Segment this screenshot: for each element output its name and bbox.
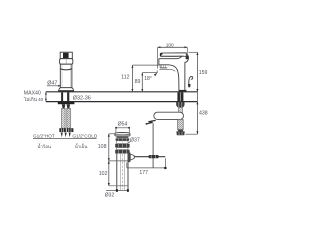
leader for Ø37: [128, 142, 130, 143]
svg-text:89: 89: [135, 79, 141, 85]
deck top line: [46, 91, 198, 93]
dimension 112 line: [131, 65, 133, 92]
svg-text:18°: 18°: [144, 76, 152, 82]
svg-text:MAX40: MAX40: [24, 90, 41, 96]
faucet S1 white silhouette: [159, 53, 189, 92]
hoses below capsule (side view): [178, 119, 184, 129]
hose H2 end nut: [67, 128, 74, 132]
drain tailpipe: [116, 154, 118, 190]
faucet S1 lever handle: [160, 53, 186, 57]
svg-text:438: 438: [199, 110, 208, 116]
bottom dim tick to 438: [185, 133, 197, 135]
hose H1 end nut: [59, 128, 66, 132]
hose H2 (cold) braided: [67, 108, 71, 128]
dimension 159/438 line: [196, 52, 198, 134]
faucet F1 body: [60, 64, 72, 88]
faucet F1 top cap: [60, 52, 72, 58]
drain flange rim: [115, 131, 130, 134]
reference line at spout underside level: [132, 64, 159, 66]
svg-text:159: 159: [199, 70, 208, 76]
faucet F1 mounting nut under deck: [58, 102, 75, 104]
pop-up lift rod knob: [189, 76, 193, 85]
svg-text:108: 108: [98, 144, 107, 150]
pop-up rod clevis hook: [146, 120, 155, 124]
faucet S1 lever pivot knob: [186, 56, 189, 60]
svg-text:177: 177: [139, 170, 148, 176]
dimension MAX40 line: [45, 92, 47, 102]
extension line left of 100: [157, 47, 159, 68]
faucet S1 handle hub arc: [184, 53, 189, 92]
mounting nut under deck (side view): [176, 102, 184, 107]
faucet S1 shank through deck: [177, 92, 183, 101]
faucet F1 neck joint curve: [61, 69, 72, 70]
svg-text:Ø54: Ø54: [118, 121, 128, 127]
reference line at pipe joint level: [109, 185, 128, 187]
extension line right of 100: [186, 47, 188, 56]
svg-text:น้ำเย็น: น้ำเย็น: [75, 142, 88, 149]
faucet S1 spout top edge: [159, 56, 182, 59]
horizontal pop-up pipe: [134, 156, 165, 158]
hose end nut (side view): [178, 130, 183, 132]
faucet F1 shank through deck: [61, 92, 63, 101]
dimension 177: [126, 162, 128, 168]
faucet S1 spout left edge: [158, 59, 160, 65]
horizontal hose capsule: [154, 112, 184, 119]
drain body band 3 (light): [117, 141, 128, 144]
tick at faucet top level: [189, 51, 198, 53]
drain body band 5 (light): [117, 148, 128, 150]
faucet S1 aerator: [159, 65, 161, 68]
svg-text:ไม่เกิน 40: ไม่เกิน 40: [23, 96, 44, 102]
svg-text:102: 102: [99, 171, 108, 177]
dimension 108/102 line: [108, 134, 110, 186]
baseline under labels: [33, 138, 97, 140]
drain side outlet flange: [128, 152, 131, 162]
angle 18 deg arrow: [156, 70, 158, 73]
reference line to flange top: [109, 133, 115, 135]
svg-text:100: 100: [166, 43, 174, 49]
dimension 100 line: [158, 46, 188, 48]
reference line at aerator tip level: [142, 72, 157, 74]
faucet F1 base flange: [58, 88, 73, 92]
svg-text:Ø47: Ø47: [47, 80, 57, 86]
leader for Ø47: [47, 85, 60, 87]
svg-text:112: 112: [121, 75, 129, 81]
drain locknut band 6: [115, 150, 129, 154]
faucet F1 tapered washers: [62, 104, 65, 108]
svg-text:น้ำร้อน: น้ำร้อน: [37, 143, 50, 149]
faucet S1 lever left end cap: [160, 53, 162, 56]
faucet F1 lever end (dark): [63, 53, 69, 58]
faucet F1 handle collar: [60, 59, 73, 64]
hose H1 (hot) braided: [62, 108, 66, 128]
faucet S1 spout underside and body left edge: [159, 65, 179, 92]
clevis connector on pipe: [149, 155, 159, 158]
svg-text:Ø32: Ø32: [105, 193, 115, 199]
faucet S1 aerator tip line: [159, 69, 175, 71]
drain locknut band 4: [115, 144, 129, 148]
svg-text:G1/2"HOT: G1/2"HOT: [33, 133, 55, 138]
drain flange sides: [114, 133, 116, 136]
svg-text:Ø37: Ø37: [130, 137, 140, 143]
faucet S1 base plinth: [179, 90, 187, 92]
dimension 89 line: [141, 73, 143, 92]
deck bottom line: [46, 101, 198, 103]
svg-text:Ø32-36: Ø32-36: [73, 95, 91, 101]
pop-up vertical rod: [152, 123, 154, 168]
reference line at outlet level: [109, 160, 128, 162]
drain body band 2: [116, 138, 130, 140]
drain body band 1: [116, 136, 128, 138]
dimension Ø32: [106, 190, 128, 192]
hose G1/2 thread tips: [61, 133, 63, 138]
svg-text:G1/2"COLD: G1/2"COLD: [72, 133, 97, 138]
threaded rod below nut: [179, 107, 183, 112]
